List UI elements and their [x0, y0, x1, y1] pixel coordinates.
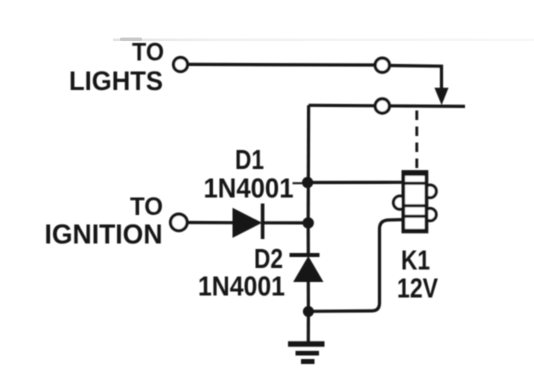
wire: bus to relay coil top terminal: [308, 181, 403, 184]
junction node: ignition bus: [303, 217, 314, 228]
ground symbol: [288, 344, 325, 362]
relay coil winding lines: [403, 182, 426, 185]
tick left of node: [293, 182, 303, 184]
label TO LIGHTS: [69, 39, 164, 97]
svg-text:D2: D2: [254, 243, 283, 274]
dashed mechanical link to relay coil: [415, 111, 418, 170]
svg-text:IGNITION: IGNITION: [45, 218, 163, 249]
relay contact terminal (top, normally-open): [375, 58, 389, 72]
terminal circle: ignition: [171, 214, 188, 231]
wire: ground node right and up to coil bottom terminal: [313, 220, 402, 312]
svg-text:1N4001: 1N4001: [198, 271, 285, 302]
svg-text:12V: 12V: [397, 273, 438, 304]
svg-text:LIGHTS: LIGHTS: [69, 66, 163, 96]
diode D1 cathode bar: [261, 204, 265, 240]
relay common contact line: [309, 105, 465, 106]
diode D2 triangle (pointing up): [294, 257, 323, 282]
wire: D1 cathode to bus: [264, 221, 307, 224]
wire: ignition terminal to D1 anode: [188, 221, 234, 224]
label K1 12V: [397, 245, 438, 304]
junction node: ground node: [303, 306, 314, 317]
wire: D2 anode down to ground node: [307, 281, 310, 311]
relay K1 coil body: [403, 172, 426, 232]
label D2 1N4001: [198, 243, 285, 302]
relay K1 coil loops: [424, 185, 437, 198]
relay contact terminal (on common line): [375, 99, 389, 113]
wire: ground node down to ground symbol: [307, 312, 310, 342]
label D1 1N4001: [204, 144, 294, 204]
diode D1 triangle: [233, 209, 261, 237]
svg-text:D1: D1: [235, 144, 264, 175]
relay armature arrowhead: [435, 88, 448, 104]
junction node: coil feed: [302, 177, 313, 188]
svg-text:TO: TO: [130, 193, 163, 221]
svg-text:TO: TO: [132, 39, 164, 67]
svg-text:K1: K1: [401, 245, 430, 276]
left vertical bus wire: [307, 105, 311, 223]
wire: terminal to top-right corner, down to armature arrow: [391, 66, 442, 90]
wire: bus down to D2 cathode: [307, 223, 310, 254]
label TO IGNITION: [45, 193, 164, 249]
diode D2 cathode bar: [290, 253, 320, 257]
wire: lights terminal to relay contact terminal: [189, 63, 374, 67]
svg-text:1N4001: 1N4001: [204, 173, 294, 204]
terminal circle: lights: [174, 58, 188, 72]
